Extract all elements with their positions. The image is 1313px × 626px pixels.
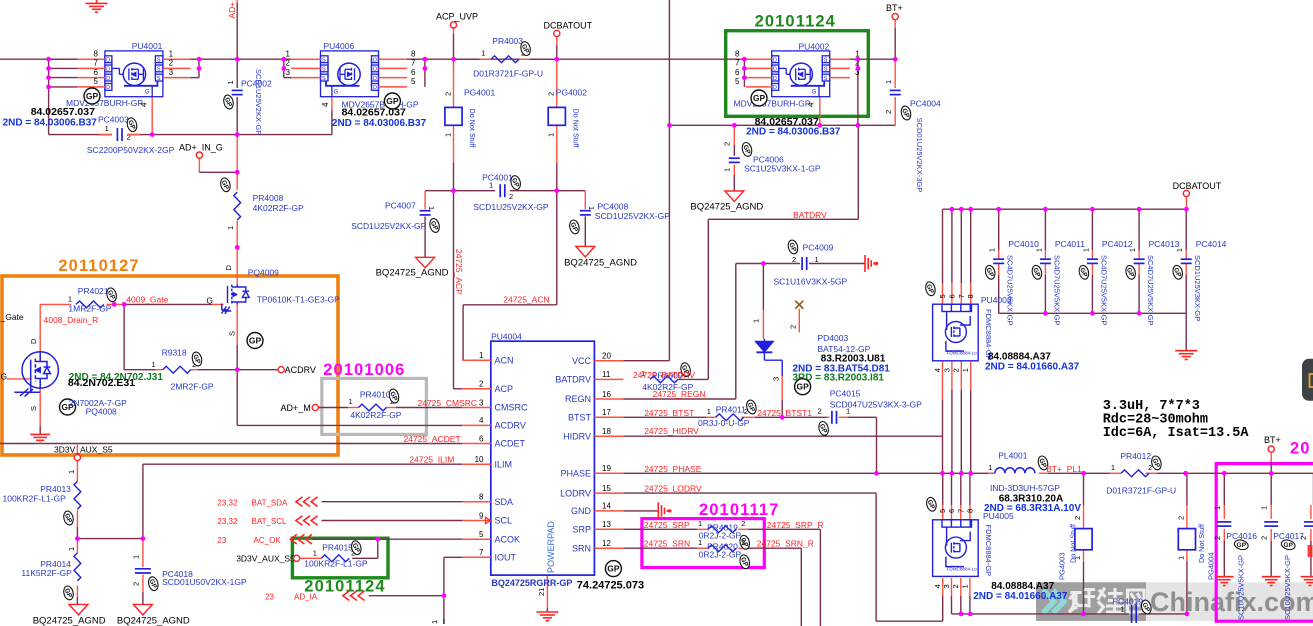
wire PC4009 row y=263.5 xyxy=(736,263,800,265)
wire BTST row xyxy=(623,416,706,418)
svg-text:1: 1 xyxy=(132,555,141,559)
svg-text:BATDRV: BATDRV xyxy=(555,375,591,385)
svg-text:SRN: SRN xyxy=(572,543,591,553)
ground top left xyxy=(96,0,98,3)
ground chassis PC4009 xyxy=(865,255,877,272)
svg-text:24725_SRN_R: 24725_SRN_R xyxy=(757,539,814,549)
wire BT+PL1 row right portion xyxy=(1039,472,1048,474)
svg-text:AD+: AD+ xyxy=(227,2,237,19)
svg-text:G: G xyxy=(145,90,150,96)
wire PG4004 vertical xyxy=(1186,473,1188,505)
svg-text:23,32: 23,32 xyxy=(217,517,238,526)
svg-text:D01R3721F-GP-U: D01R3721F-GP-U xyxy=(473,69,543,79)
svg-text:1: 1 xyxy=(1036,248,1043,252)
svg-text:SDA: SDA xyxy=(495,497,514,507)
svg-text:19: 19 xyxy=(602,464,611,473)
wire PD4003 cathode to BTST1 xyxy=(763,352,765,360)
svg-text:BQ24725_AGND: BQ24725_AGND xyxy=(376,268,449,279)
svg-text:PQ4009: PQ4009 xyxy=(248,267,279,277)
svg-text:SC2200P50V2KX-2GP: SC2200P50V2KX-2GP xyxy=(87,145,175,155)
svg-text:1: 1 xyxy=(349,397,353,406)
svg-text:1: 1 xyxy=(226,80,235,84)
wire IOUT route xyxy=(444,556,462,558)
wire ILIM down to divider node xyxy=(142,473,144,539)
svg-text:20110127: 20110127 xyxy=(58,257,139,275)
svg-text:PC4004: PC4004 xyxy=(910,99,941,109)
wire PC4006 hang xyxy=(733,125,735,145)
wire PU4001 pin3 jog xyxy=(190,77,199,79)
svg-text:BT+: BT+ xyxy=(886,3,903,13)
transistor PQ4009 TP0610K P-FET xyxy=(221,285,249,314)
ground right clipped xyxy=(1301,577,1313,586)
svg-text:SC4D7U25V5KX-GP: SC4D7U25V5KX-GP xyxy=(1006,255,1015,325)
svg-text:PC4013: PC4013 xyxy=(1149,239,1180,249)
svg-text:6: 6 xyxy=(735,68,740,77)
op-amp U1 PU4004 BQ24725 charger IC body xyxy=(491,341,595,575)
svg-text:PR4021: PR4021 xyxy=(78,286,109,296)
transistor PU4006 dual MOSFET xyxy=(321,51,379,97)
svg-text:1: 1 xyxy=(1213,506,1222,510)
wire HIDRV row xyxy=(623,435,942,437)
svg-text:84.02657.037: 84.02657.037 xyxy=(31,106,95,118)
svg-text:S: S xyxy=(322,76,326,82)
svg-text:4K02R2F-GP: 4K02R2F-GP xyxy=(350,410,401,420)
wire PR4014 stubs xyxy=(76,539,78,553)
svg-text:BAT_SDA: BAT_SDA xyxy=(252,498,289,507)
svg-text:2: 2 xyxy=(1260,536,1269,540)
ground PQ4008 source xyxy=(30,434,50,443)
svg-text:2: 2 xyxy=(792,255,796,264)
chevrons AD_IA xyxy=(343,591,365,601)
svg-text:24725_SRP: 24725_SRP xyxy=(644,520,690,530)
svg-text:G: G xyxy=(812,90,817,96)
svg-text:9: 9 xyxy=(479,511,484,520)
no-connect X PD4003 pin2 xyxy=(795,301,803,309)
svg-text:PG4003: PG4003 xyxy=(1058,552,1067,580)
capacitor PC4019 xyxy=(1131,605,1133,623)
wire output sense row y=613.9 xyxy=(952,613,1129,615)
svg-text:1: 1 xyxy=(427,206,436,210)
wire ACDRV net from PQ4009 source xyxy=(236,305,238,346)
svg-text:1: 1 xyxy=(751,319,760,323)
PU4004 SCL pin arrow xyxy=(486,517,491,523)
svg-text:1: 1 xyxy=(547,133,556,137)
capacitor PC4014 xyxy=(1181,258,1192,260)
svg-text:2ND = 84.03006.B37: 2ND = 84.03006.B37 xyxy=(746,127,841,138)
PU4001 GP stamp xyxy=(84,88,100,104)
svg-text:PR4011: PR4011 xyxy=(716,404,746,414)
capacitor PC4001 xyxy=(499,184,501,197)
svg-text:4008_Drain_R: 4008_Drain_R xyxy=(44,315,99,325)
svg-text:3: 3 xyxy=(942,368,951,372)
svg-text:S: S xyxy=(157,67,161,73)
transistor PU4005 FDMC8884 xyxy=(933,520,979,577)
ground BQ24725_AGND PC4018 xyxy=(133,604,152,615)
svg-text:MDV2657BURH-GP: MDV2657BURH-GP xyxy=(734,99,811,109)
GND pin chassis ground xyxy=(658,502,670,519)
capacitor PC4013 xyxy=(1134,258,1145,260)
wire SRN_R drop xyxy=(800,548,802,626)
wire VCC pin20 xyxy=(623,360,669,362)
svg-text:BATDRV: BATDRV xyxy=(793,210,827,220)
svg-text:Do Not Stuff: Do Not Stuff xyxy=(1197,524,1206,563)
svg-text:2: 2 xyxy=(169,59,174,68)
svg-text:1MR2F-GP: 1MR2F-GP xyxy=(68,304,111,314)
wire PD4003 anode drop xyxy=(762,264,764,311)
svg-text:24725_ACDET: 24725_ACDET xyxy=(404,434,461,444)
wire ACDET row xyxy=(0,443,462,445)
svg-text:AD+_IN_G: AD+_IN_G xyxy=(179,143,223,153)
svg-text:14: 14 xyxy=(602,502,611,511)
wire PQ4009 gate row xyxy=(40,303,71,305)
svg-text:100KR2F-L1-GP: 100KR2F-L1-GP xyxy=(304,559,368,569)
resistor PR4020 xyxy=(708,545,736,552)
svg-text:GP: GP xyxy=(607,564,620,574)
svg-text:S: S xyxy=(157,58,161,64)
svg-text:5: 5 xyxy=(94,77,99,86)
wire left VCC vertical x=669.4 xyxy=(668,0,670,125)
transistor PU4002 dual MOSFET xyxy=(772,51,830,97)
capacitor PC4003 xyxy=(116,128,118,141)
svg-text:POWERPAD: POWERPAD xyxy=(546,521,556,573)
resistor PR4019 xyxy=(708,526,736,533)
date stamp box 20101124 bottom (green) xyxy=(292,538,388,578)
svg-text:2: 2 xyxy=(547,92,556,96)
wire ACN route DCBATOUT->pin1 xyxy=(556,191,558,305)
svg-text:7: 7 xyxy=(956,509,965,513)
watermark band xyxy=(1036,582,1313,621)
PU4002 GP stamp xyxy=(751,90,767,106)
svg-text:1: 1 xyxy=(723,168,732,172)
svg-text:1: 1 xyxy=(67,470,76,474)
PQ4009 GP stamp xyxy=(247,333,263,349)
resistor PR4009 xyxy=(650,376,678,383)
svg-text:PR4015: PR4015 xyxy=(322,543,353,553)
svg-text:4K02R2F-GP: 4K02R2F-GP xyxy=(253,203,304,213)
svg-text:Do Not Stuff: Do Not Stuff xyxy=(468,109,477,148)
svg-text:4009_Gate: 4009_Gate xyxy=(126,294,168,304)
ground PC4016 xyxy=(1215,577,1234,586)
svg-text:8: 8 xyxy=(735,50,740,59)
svg-text:2: 2 xyxy=(741,519,745,528)
svg-text:12: 12 xyxy=(602,539,611,548)
svg-text:DCBATOUT: DCBATOUT xyxy=(1173,181,1222,191)
svg-text:FDMC8884-Lo: FDMC8884-Lo xyxy=(947,566,978,571)
wire ACP down to pin2 xyxy=(453,191,455,389)
PQ4008 GP stamp xyxy=(60,399,76,415)
svg-text:0R2J-2-GP: 0R2J-2-GP xyxy=(699,531,742,541)
svg-text:1: 1 xyxy=(707,407,711,416)
svg-text:D: D xyxy=(373,58,377,64)
wire LODRV route xyxy=(623,492,876,494)
capacitor PC4008 xyxy=(580,210,591,212)
svg-text:1: 1 xyxy=(1083,248,1090,252)
svg-text:SC10U25V5KX-GP: SC10U25V5KX-GP xyxy=(1236,555,1245,620)
svg-text:2: 2 xyxy=(443,92,452,96)
wire PC4015 to PHASE xyxy=(876,417,878,473)
svg-text:1: 1 xyxy=(988,463,992,472)
svg-text:BTST: BTST xyxy=(568,413,592,423)
svg-text:SRP: SRP xyxy=(572,525,591,535)
svg-text:1: 1 xyxy=(169,50,174,59)
PU4001 left pin stubs xyxy=(49,58,77,60)
svg-text:1: 1 xyxy=(1111,463,1115,472)
svg-text:PG4002: PG4002 xyxy=(556,88,587,98)
svg-text:G: G xyxy=(334,90,339,96)
capacitor PC4007 xyxy=(420,210,431,212)
svg-text:REGN: REGN xyxy=(565,394,591,404)
resistor PR4011 xyxy=(716,414,744,421)
svg-text:IND-3D3UH-57GP: IND-3D3UH-57GP xyxy=(990,483,1060,493)
svg-text:1: 1 xyxy=(990,248,997,252)
svg-text:_Gate: _Gate xyxy=(0,312,24,322)
svg-text:2ND = 68.3R31A.10V: 2ND = 68.3R31A.10V xyxy=(984,503,1081,514)
svg-text:3: 3 xyxy=(169,68,174,77)
wire PC4017 hang xyxy=(1270,473,1272,505)
wire DCBATOUT vertical x=556.8 xyxy=(556,37,558,45)
svg-text:3: 3 xyxy=(286,68,291,77)
svg-text:3: 3 xyxy=(942,584,951,588)
PU4004 left pins xyxy=(462,359,491,361)
capacitor PC4006 xyxy=(729,157,740,159)
wire BTST1 to cap xyxy=(782,416,826,418)
svg-text:6: 6 xyxy=(94,68,99,77)
svg-text:S: S xyxy=(29,406,38,411)
do-not-stuff PG4004 xyxy=(1178,529,1195,550)
do-not-stuff PG4002 xyxy=(548,107,565,125)
PR4008 GP stamp xyxy=(219,177,232,193)
date stamp box 20101124 top (green) xyxy=(726,31,869,117)
svg-text:2MR2F-GP: 2MR2F-GP xyxy=(171,381,214,391)
svg-text:SC1U16V3KX-5GP: SC1U16V3KX-5GP xyxy=(774,277,848,287)
date stamp box 20101117 (magenta) xyxy=(642,519,764,568)
svg-text:SC1U25V3KX-1-GP: SC1U25V3KX-1-GP xyxy=(744,164,821,174)
wire AD+ down to PR4008/PQ4009 xyxy=(236,135,238,190)
svg-text:8: 8 xyxy=(94,50,99,59)
svg-text:5: 5 xyxy=(735,77,740,86)
wire REGN route xyxy=(735,264,737,400)
svg-text:AD+_M: AD+_M xyxy=(281,403,311,413)
svg-text:5: 5 xyxy=(411,77,416,86)
svg-text:24725_BTST: 24725_BTST xyxy=(644,408,694,418)
wire cap bank bottom bus y=313.3 xyxy=(999,312,1186,314)
resistor R9318 xyxy=(163,366,191,373)
svg-text:GP: GP xyxy=(249,336,262,346)
svg-text:PR4012: PR4012 xyxy=(1120,451,1151,461)
svg-text:13: 13 xyxy=(602,520,611,529)
svg-text:2ND = 84.01660.A37: 2ND = 84.01660.A37 xyxy=(973,591,1068,602)
wire AD_IA row xyxy=(369,595,444,597)
svg-text:24725_SRP_R: 24725_SRP_R xyxy=(767,520,824,530)
svg-text:3: 3 xyxy=(772,377,781,381)
svg-text:PC4014: PC4014 xyxy=(1196,239,1227,249)
PU4006 left pin stubs xyxy=(291,58,321,60)
svg-text:PG4004: PG4004 xyxy=(1207,552,1216,580)
svg-text:BQ24725_AGND: BQ24725_AGND xyxy=(117,616,190,626)
svg-text:PHASE: PHASE xyxy=(560,469,591,479)
svg-text:SCD1U25V2KX-GP: SCD1U25V2KX-GP xyxy=(595,211,670,221)
svg-text:PC4011: PC4011 xyxy=(1055,239,1085,249)
wire cap bank ground drop xyxy=(1185,313,1187,350)
svg-text:PR4013: PR4013 xyxy=(40,484,71,494)
svg-text:PC4019: PC4019 xyxy=(1112,597,1143,607)
ground BQ24725_AGND PC4007 xyxy=(416,257,435,268)
svg-text:S: S xyxy=(157,76,161,82)
svg-text:24725_LODRV: 24725_LODRV xyxy=(644,484,702,494)
svg-text:BQ24725_AGND: BQ24725_AGND xyxy=(690,202,763,213)
svg-text:2ND = 84.03006.B37: 2ND = 84.03006.B37 xyxy=(332,118,427,129)
capacitor PC4012 xyxy=(1087,258,1098,260)
resistor PR4003 xyxy=(491,56,519,63)
capacitor PC4018 xyxy=(135,568,151,570)
wire cap row y=190.7 xyxy=(425,190,495,192)
svg-text:S: S xyxy=(824,58,828,64)
svg-text:2: 2 xyxy=(884,110,893,114)
svg-text:SCD047U25V3KX-3-GP: SCD047U25V3KX-3-GP xyxy=(830,399,922,409)
svg-text:1: 1 xyxy=(479,351,484,360)
wire PU4002 right tie vertical xyxy=(857,59,859,125)
svg-text:ACOK: ACOK xyxy=(495,534,521,544)
resistor PR4013 (vertical) xyxy=(74,481,81,509)
svg-text:15: 15 xyxy=(602,484,611,493)
svg-text:S: S xyxy=(824,76,828,82)
svg-text:7: 7 xyxy=(94,59,99,68)
svg-text:3D3V_AUX_S5: 3D3V_AUX_S5 xyxy=(54,444,113,454)
svg-text:6: 6 xyxy=(947,294,956,298)
wire PHASE row y=473.3 xyxy=(623,472,876,474)
svg-text:D: D xyxy=(106,67,110,73)
wire PU4006 left tie vertical xyxy=(283,59,285,77)
wire AD+_IN_G branch xyxy=(198,158,200,172)
svg-text:SC4D7U25V5KX-GP: SC4D7U25V5KX-GP xyxy=(1146,255,1155,325)
svg-text:D: D xyxy=(773,67,777,73)
ground BQ24725_AGND PR4014 xyxy=(69,604,88,615)
svg-text:7: 7 xyxy=(479,548,484,557)
wire AD+ top red tick xyxy=(236,0,238,3)
svg-text:BT+_PL1: BT+_PL1 xyxy=(1046,464,1082,474)
wire SRP row to box xyxy=(623,528,697,530)
svg-text:TP0610K-T1-GE3-GP: TP0610K-T1-GE3-GP xyxy=(257,295,340,305)
svg-text:2: 2 xyxy=(132,582,141,586)
wire PR4015 to 3D3V circle xyxy=(300,557,309,559)
svg-text:BQ24725_AGND: BQ24725_AGND xyxy=(33,616,106,626)
svg-text:BAT_SCL: BAT_SCL xyxy=(252,517,288,526)
wire BT+2 stub xyxy=(1270,452,1272,462)
wire divider mid node row xyxy=(77,538,142,540)
svg-text:D: D xyxy=(373,76,377,82)
resistor PR4021 xyxy=(76,301,104,308)
svg-text:GP: GP xyxy=(753,93,766,103)
svg-text:SCL: SCL xyxy=(495,516,513,526)
svg-text:SCD1U25V2KX-GP: SCD1U25V2KX-GP xyxy=(473,202,548,212)
wire SCL row xyxy=(322,520,463,522)
svg-text:R9318: R9318 xyxy=(162,348,187,358)
wire PU4002 left tie vertical xyxy=(743,59,745,87)
wire ACOK pullup branch xyxy=(377,539,379,558)
svg-text:SC4D7U25V5KX-GP: SC4D7U25V5KX-GP xyxy=(1052,255,1061,325)
svg-text:1: 1 xyxy=(1260,506,1269,510)
wire BT+ drop x=895.2 xyxy=(894,20,896,28)
svg-text:PC4016: PC4016 xyxy=(1226,531,1257,541)
svg-text:4: 4 xyxy=(933,368,942,372)
wire PU4006 pin3 jog xyxy=(284,77,292,79)
wire PQ4008 gate from edge xyxy=(7,378,31,380)
svg-text:7: 7 xyxy=(735,59,740,68)
wire BATDRV route xyxy=(857,125,859,219)
svg-text:PC4008: PC4008 xyxy=(598,202,629,212)
svg-text:SCD1U25V2KX-GP: SCD1U25V2KX-GP xyxy=(254,69,263,135)
svg-text:AC_OK: AC_OK xyxy=(254,536,282,545)
svg-text:1: 1 xyxy=(698,538,702,547)
svg-text:1: 1 xyxy=(481,49,485,58)
PU4006 right pin stubs xyxy=(379,58,408,60)
wire PU4001 right tie vertical xyxy=(198,59,200,77)
resistor PR4008 xyxy=(234,192,241,220)
svg-text:2: 2 xyxy=(1176,516,1185,520)
svg-text:PL4001: PL4001 xyxy=(998,451,1028,461)
wire DCBATOUT2 stub xyxy=(1185,197,1187,210)
svg-text:PU4001: PU4001 xyxy=(132,41,163,51)
svg-text:LODRV: LODRV xyxy=(560,488,591,498)
do-not-stuff PG4003 xyxy=(1075,529,1092,550)
svg-text:100KR2F-L1-GP: 100KR2F-L1-GP xyxy=(3,494,67,504)
svg-text:16: 16 xyxy=(602,390,611,399)
svg-text:D: D xyxy=(773,76,777,82)
svg-text:20: 20 xyxy=(602,352,611,361)
svg-text:ACN: ACN xyxy=(495,355,514,365)
svg-text:D: D xyxy=(224,265,233,271)
svg-text:G: G xyxy=(1,372,8,382)
watermark CJK xun wei wang xyxy=(1070,589,1144,613)
svg-text:D: D xyxy=(373,85,377,91)
svg-text:GP: GP xyxy=(86,91,99,101)
capacitor PC4010 xyxy=(993,258,1004,260)
svg-text:84.2N702.E31: 84.2N702.E31 xyxy=(68,377,135,389)
wire PC4007 hang xyxy=(424,191,426,210)
svg-text:PC4015: PC4015 xyxy=(830,388,861,398)
svg-text:BT+: BT+ xyxy=(1264,435,1281,445)
svg-text:24725_ACN: 24725_ACN xyxy=(503,295,549,305)
svg-text:D: D xyxy=(773,58,777,64)
svg-text:24725_CMSRC: 24725_CMSRC xyxy=(418,398,478,408)
svg-text:D: D xyxy=(106,85,110,91)
resistor PR4012 xyxy=(1121,470,1149,477)
wire PG4003 vertical xyxy=(1083,473,1085,505)
wire SRP_R drop xyxy=(819,529,821,626)
resistor PR4014 (vertical) xyxy=(74,553,81,581)
svg-text:20101006: 20101006 xyxy=(323,361,405,379)
svg-text:PG4001: PG4001 xyxy=(464,88,495,98)
PU4003 d9 stamp xyxy=(924,281,937,297)
svg-text:PR4003: PR4003 xyxy=(492,36,523,46)
svg-text:1: 1 xyxy=(960,584,969,588)
svg-text:1: 1 xyxy=(961,368,970,372)
svg-text:GP: GP xyxy=(796,382,809,392)
wire cap bank verticals xyxy=(998,209,1000,250)
transistor PQ4008 2N7002 N-FET xyxy=(14,352,58,397)
wire 3D3V_AUX_S5 stub xyxy=(76,444,78,455)
svg-text:2: 2 xyxy=(818,407,822,416)
svg-text:PR4008: PR4008 xyxy=(253,193,284,203)
svg-text:24725_HIDRV: 24725_HIDRV xyxy=(644,426,699,436)
svg-text:1: 1 xyxy=(226,226,235,230)
chevrons BAT_SDA xyxy=(296,497,318,507)
ground PC4017 xyxy=(1262,577,1281,586)
svg-text:5: 5 xyxy=(938,294,947,298)
svg-text:ACDET: ACDET xyxy=(495,439,526,449)
svg-text:7: 7 xyxy=(411,59,416,68)
wire ILIM route xyxy=(143,463,462,465)
